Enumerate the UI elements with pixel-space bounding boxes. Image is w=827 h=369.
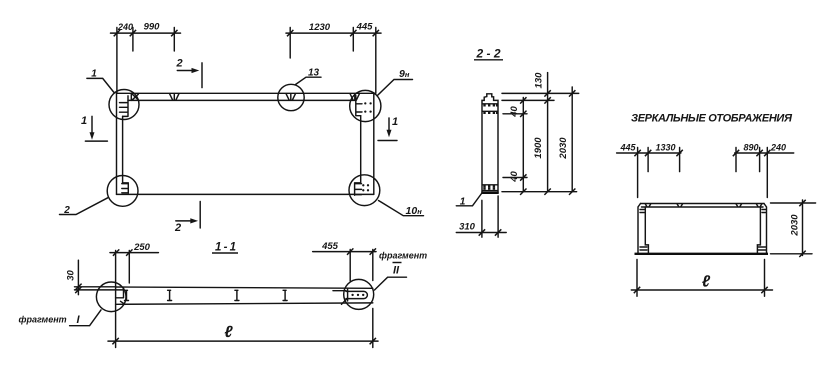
- title 1-1: [212, 242, 238, 254]
- dimension 240/990: [111, 22, 181, 37]
- svg-text:240: 240: [117, 22, 133, 32]
- bar outline 2-2: [481, 94, 498, 193]
- svg-text:2: 2: [175, 58, 182, 70]
- svg-text:40: 40: [509, 171, 520, 183]
- svg-text:455: 455: [321, 241, 339, 252]
- label 10н with leader: [379, 201, 424, 218]
- mirror panel outline: [635, 204, 769, 254]
- section mark 1 right: [378, 116, 398, 141]
- label fragment I: [19, 310, 102, 326]
- svg-text:1-1: 1-1: [215, 242, 236, 254]
- svg-text:1230: 1230: [309, 22, 331, 33]
- label 9н with leader: [377, 68, 412, 96]
- svg-text:фрагмент: фрагмент: [19, 315, 67, 325]
- lifting loop marks (V): [170, 94, 360, 101]
- dimension line 130/1900 (2-2): [533, 72, 551, 195]
- extension lines left dims: [117, 28, 174, 94]
- section mark 2 bottom: [174, 202, 200, 235]
- svg-text:445: 445: [619, 143, 636, 153]
- svg-text:ℓ: ℓ: [702, 274, 711, 291]
- detail circle 9н (top-right): [350, 90, 381, 121]
- detail circle 1 (top-left): [109, 90, 139, 120]
- svg-text:1: 1: [81, 115, 87, 127]
- section mark 1 left: [81, 115, 107, 141]
- svg-text:250: 250: [133, 242, 151, 253]
- svg-text:2030: 2030: [790, 214, 801, 237]
- dimension 310 (2-2): [456, 196, 506, 237]
- dimension line 40/40 (2-2): [509, 97, 527, 195]
- dimension 1230/445: [286, 22, 381, 37]
- stiffener marks in bar: [125, 290, 288, 300]
- svg-text:1: 1: [392, 116, 398, 128]
- dimension 30: [66, 260, 124, 295]
- svg-text:30: 30: [66, 270, 77, 281]
- label 1 with leader: [87, 69, 114, 93]
- dimension 445/1330: [617, 143, 683, 157]
- mirror member hatch dashes: [640, 210, 766, 251]
- dimension 2030 (mirror): [771, 200, 816, 257]
- label 1 (2-2) with leader: [456, 193, 482, 208]
- svg-text:1330: 1330: [655, 143, 675, 153]
- extension lines mirror dims: [638, 148, 768, 198]
- svg-text:фрагмент: фрагмент: [379, 251, 427, 261]
- svg-text:130: 130: [534, 72, 545, 89]
- title mirror: [631, 113, 793, 125]
- extension lines right dims: [290, 28, 376, 94]
- svg-text:2030: 2030: [558, 137, 569, 160]
- weld X mark top-left joint: [131, 93, 138, 100]
- detail circle 13 (top middle): [278, 84, 304, 110]
- extension lines 2-2: [502, 93, 579, 191]
- svg-text:2-2: 2-2: [476, 47, 501, 61]
- svg-text:890: 890: [743, 143, 758, 153]
- label fragment II: [375, 251, 428, 291]
- svg-text:990: 990: [144, 22, 161, 33]
- label 2 with leader: [60, 198, 108, 216]
- dimension l (1-1): [108, 324, 378, 344]
- svg-text:240: 240: [770, 143, 786, 153]
- svg-text:9н: 9н: [399, 68, 410, 80]
- mirror loop marks: [645, 204, 762, 207]
- fragment I detail circle: [96, 282, 126, 312]
- svg-text:445: 445: [356, 22, 374, 33]
- svg-text:ЗЕРКАЛЬНЫЕ ОТОБРАЖЕНИЯ: ЗЕРКАЛЬНЫЕ ОТОБРАЖЕНИЯ: [631, 113, 793, 125]
- svg-text:2: 2: [174, 222, 181, 234]
- detail circle 2 (bottom-left): [107, 176, 138, 207]
- dimension line 2030 (2-2): [558, 87, 575, 195]
- dimension 890/240: [733, 143, 794, 157]
- svg-text:II: II: [393, 265, 400, 277]
- detail circle 10н (bottom-right): [349, 175, 380, 206]
- panel outline plan: [117, 93, 374, 194]
- svg-text:310: 310: [459, 222, 476, 233]
- section mark 2 top: [175, 58, 202, 88]
- svg-text:40: 40: [509, 106, 520, 118]
- dimension 455: [313, 241, 376, 281]
- label 13 with leader: [296, 68, 322, 85]
- dimension 250: [110, 242, 158, 283]
- embed plate rows 2-2: [482, 104, 498, 191]
- svg-text:1900: 1900: [533, 137, 544, 159]
- svg-text:ℓ: ℓ: [224, 324, 233, 341]
- long extension/centerlines 1-1: [116, 250, 373, 348]
- title 2-2: [474, 47, 503, 61]
- fragment II detail circle: [333, 279, 374, 309]
- dimension l (mirror): [631, 260, 772, 297]
- bar outline 1-1: [116, 287, 373, 304]
